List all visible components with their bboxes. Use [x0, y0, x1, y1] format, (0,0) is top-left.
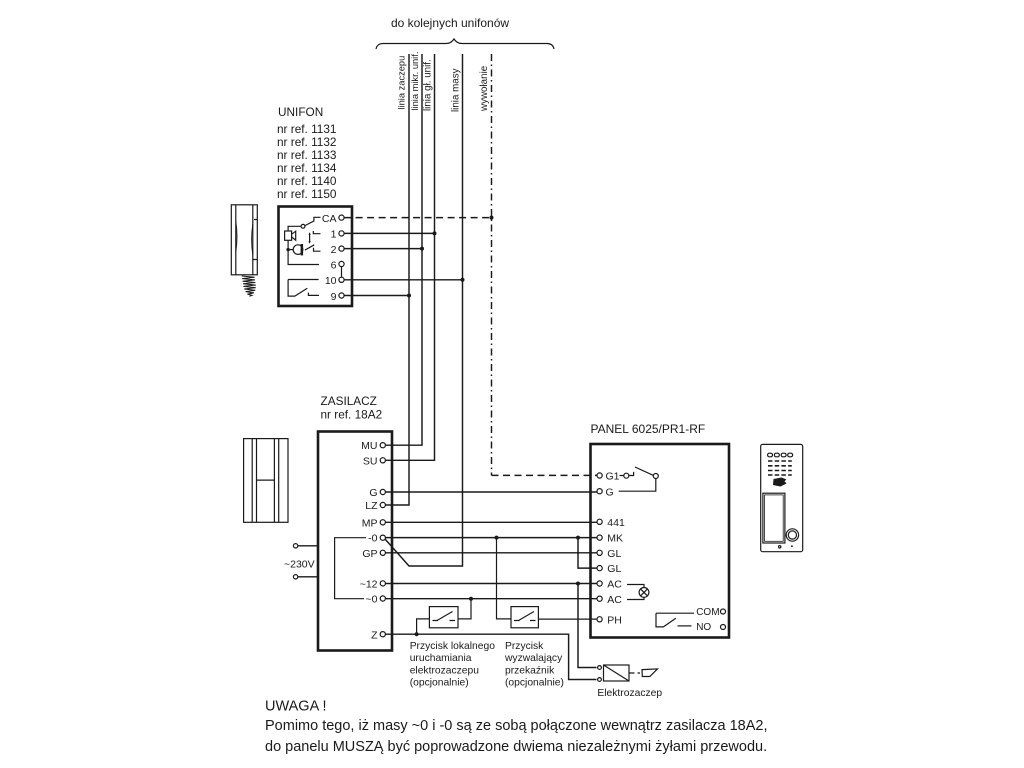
svg-text:PANEL 6025/PR1-RF: PANEL 6025/PR1-RF — [591, 422, 706, 436]
svg-text:linia masy: linia masy — [451, 68, 462, 112]
svg-text:COM: COM — [696, 607, 719, 618]
svg-text:Elektrozaczep: Elektrozaczep — [597, 688, 662, 699]
svg-text:G: G — [369, 487, 377, 499]
svg-text:2: 2 — [331, 244, 337, 256]
svg-text:nr ref. 1131: nr ref. 1131 — [277, 122, 336, 136]
svg-text:~0: ~0 — [366, 594, 378, 606]
svg-text:CA: CA — [322, 213, 337, 225]
svg-text:AC: AC — [607, 594, 622, 606]
svg-text:LZ: LZ — [365, 500, 378, 512]
svg-text:wyzwalający: wyzwalający — [504, 653, 563, 664]
svg-text:(opcjonalnie): (opcjonalnie) — [410, 678, 469, 689]
svg-text:MK: MK — [607, 533, 623, 545]
svg-text:SU: SU — [363, 455, 378, 467]
svg-text:UNIFON: UNIFON — [278, 105, 323, 119]
svg-text:nr ref. 1132: nr ref. 1132 — [277, 135, 336, 149]
svg-text:nr ref. 1140: nr ref. 1140 — [277, 174, 337, 188]
svg-text:PH: PH — [607, 614, 622, 626]
svg-text:wywołanie: wywołanie — [479, 65, 490, 112]
svg-text:~12: ~12 — [360, 578, 378, 590]
svg-text:Przycisk: Przycisk — [505, 641, 544, 652]
svg-text:uruchamiania: uruchamiania — [410, 653, 472, 664]
svg-text:G1: G1 — [606, 471, 620, 483]
svg-text:ZASILACZ: ZASILACZ — [321, 394, 377, 408]
svg-text:MP: MP — [362, 518, 378, 530]
svg-text:linia mikr. unif.: linia mikr. unif. — [410, 52, 420, 111]
svg-text:~230V: ~230V — [284, 559, 315, 571]
svg-text:GP: GP — [362, 548, 377, 560]
svg-text:Przycisk lokalnego: Przycisk lokalnego — [410, 641, 496, 652]
svg-text:do panelu MUSZĄ być poprowadzo: do panelu MUSZĄ być poprowadzone dwiema … — [265, 739, 767, 755]
svg-text:GL: GL — [607, 563, 621, 575]
svg-text:nr ref. 18A2: nr ref. 18A2 — [321, 408, 383, 422]
svg-text:Z: Z — [371, 629, 378, 641]
svg-text:(opcjonalnie): (opcjonalnie) — [505, 678, 564, 689]
svg-text:nr ref. 1150: nr ref. 1150 — [277, 187, 337, 201]
svg-text:6: 6 — [331, 259, 337, 271]
svg-text:10: 10 — [325, 275, 337, 287]
svg-text:do kolejnych unifonów: do kolejnych unifonów — [391, 16, 509, 30]
svg-text:-0: -0 — [368, 533, 377, 545]
svg-text:NO: NO — [696, 622, 711, 633]
svg-text:Pomimo tego, iż masy ~0 i -0 s: Pomimo tego, iż masy ~0 i -0 są ze sobą … — [265, 718, 768, 734]
svg-text:nr ref. 1133: nr ref. 1133 — [277, 148, 337, 162]
svg-text:elektrozaczepu: elektrozaczepu — [410, 665, 480, 676]
svg-text:UWAGA !: UWAGA ! — [265, 699, 327, 715]
svg-text:przekaźnik: przekaźnik — [505, 665, 555, 676]
svg-text:G: G — [606, 486, 614, 498]
svg-text:nr ref. 1134: nr ref. 1134 — [277, 161, 337, 175]
svg-text:1: 1 — [331, 229, 337, 241]
svg-text:linia zaczepu: linia zaczepu — [397, 56, 407, 110]
svg-text:MU: MU — [361, 440, 377, 452]
svg-text:GL: GL — [607, 548, 621, 560]
svg-text:AC: AC — [607, 579, 622, 591]
svg-text:linia gł. unif.: linia gł. unif. — [423, 59, 434, 111]
svg-text:441: 441 — [607, 517, 625, 529]
svg-text:9: 9 — [331, 291, 337, 303]
